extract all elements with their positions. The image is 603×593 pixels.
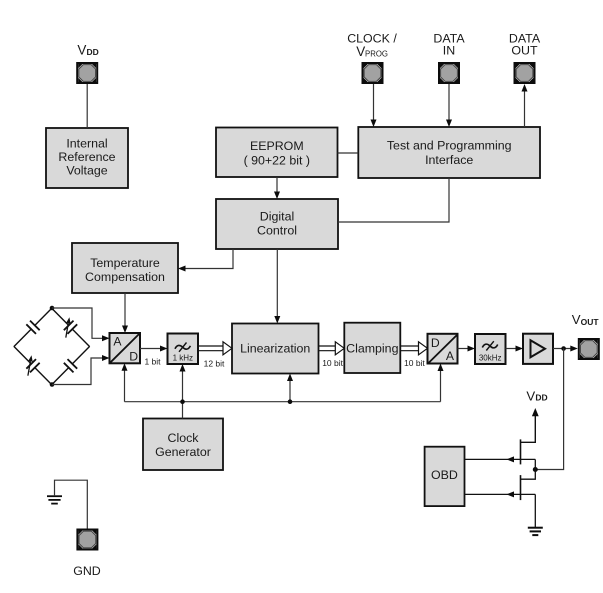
wire CLOCK pad to Test Interface (arrow down) [371, 84, 377, 127]
svg-text:1 bit: 1 bit [144, 356, 161, 366]
block low-pass filter 30 kHz [475, 334, 506, 364]
bus Linearization to Clamping (10 bit) [319, 342, 345, 355]
svg-text:Clamping: Clamping [346, 342, 398, 356]
block output buffer amplifier [523, 334, 553, 364]
svg-text:A: A [446, 349, 455, 363]
svg-text:Control: Control [257, 224, 297, 238]
svg-text:V: V [572, 312, 581, 327]
svg-text:Voltage: Voltage [66, 164, 107, 178]
wire VOUT branch to output node [535, 349, 563, 470]
block Clock Generator [143, 419, 223, 471]
pad VDD (top left) [77, 63, 97, 83]
wire upper transistor drain to VDD (arrow up) [521, 408, 539, 442]
label DATA OUT [509, 32, 541, 58]
svg-text:DD: DD [535, 393, 547, 403]
pad GND (bottom left) [77, 530, 97, 550]
wire clock distribution line [125, 401, 441, 403]
wire 30 kHz filter to buffer (arrow right) [506, 346, 524, 352]
svg-text:Compensation: Compensation [85, 270, 165, 284]
node dot output stage [533, 467, 538, 472]
svg-text:1 kHz: 1 kHz [173, 353, 193, 362]
arrowhead to OBD (upper) [507, 456, 515, 462]
wire Temperature Compensation to A/D (arrow down) [122, 293, 128, 333]
pad VOUT (right) [579, 339, 599, 359]
pad DATA OUT [515, 63, 535, 83]
wire Digital Control to Temperature Compensation (arrow left) [178, 249, 233, 272]
svg-text:A: A [113, 335, 122, 349]
svg-text:DD: DD [87, 47, 99, 57]
wire buffer to VOUT pad (arrow right) [553, 346, 578, 352]
transistor lower (low-side) [465, 470, 536, 528]
node dot clock line at 1 kHz branch [180, 399, 185, 404]
block A/D converter [110, 333, 141, 363]
wire clock to A/D (arrow up) [122, 363, 128, 401]
pad DATA IN [439, 63, 459, 83]
wire Test Interface to Digital Control [338, 178, 449, 222]
block Internal Reference Voltage [46, 128, 128, 188]
svg-text:10 bit: 10 bit [322, 358, 343, 368]
svg-text:Test and Programming: Test and Programming [387, 139, 512, 153]
wire Digital Control to Linearization (arrow down) [274, 249, 280, 324]
node dot VOUT branch [561, 346, 566, 351]
wire Test Interface to DATA OUT pad (arrow up) [522, 84, 528, 127]
wire DATA IN pad to Test Interface (arrow down) [446, 84, 452, 127]
block low-pass filter 1 kHz [168, 334, 199, 365]
svg-text:Interface: Interface [425, 153, 473, 167]
block D/A converter [428, 334, 458, 364]
block Clamping [344, 323, 400, 373]
svg-text:Clock: Clock [168, 431, 200, 445]
svg-text:Generator: Generator [155, 445, 211, 459]
wire bridge top to A/D (arrow right) [52, 308, 110, 341]
svg-text:( 90+22 bit ): ( 90+22 bit ) [244, 154, 310, 168]
variable arrow on bottom-left capacitor [28, 355, 33, 375]
block OBD [425, 447, 465, 506]
svg-text:Temperature: Temperature [90, 256, 160, 270]
wire A/D to 1 kHz filter (arrow right) [140, 346, 168, 352]
variable arrow on top-right capacitor [66, 317, 71, 337]
side top-left with capacitor [9, 303, 57, 351]
side top-right with variable capacitor [47, 303, 95, 351]
svg-text:OUT: OUT [511, 44, 538, 58]
svg-text:IN: IN [443, 44, 455, 58]
wire EEPROM to Test Interface [338, 152, 359, 154]
transistor upper (high-side) [465, 439, 536, 469]
svg-text:10 bit: 10 bit [404, 358, 425, 368]
pad CLOCK/VPROG [363, 63, 383, 83]
svg-text:CLOCK /: CLOCK / [347, 32, 397, 46]
svg-text:Linearization: Linearization [240, 342, 310, 356]
label VOUT [572, 312, 600, 327]
wire EEPROM to Digital Control (arrow down) [274, 177, 280, 199]
svg-text:12 bit: 12 bit [204, 358, 225, 368]
node dot bridge top [50, 306, 55, 311]
svg-text:Internal: Internal [66, 137, 107, 151]
wire clock to Linearization (arrow up) [287, 374, 293, 402]
svg-text:V: V [526, 388, 535, 403]
svg-text:V: V [356, 44, 365, 59]
label DATA IN [433, 32, 465, 58]
svg-text:D: D [431, 336, 440, 350]
node dot clock line at Linearization branch [288, 399, 293, 404]
side bottom-left with variable capacitor [9, 342, 57, 390]
svg-text:OUT: OUT [581, 317, 600, 327]
svg-text:D: D [129, 349, 138, 363]
block Digital Control [216, 199, 338, 249]
wire clock to D/A (arrow up) [438, 364, 444, 402]
svg-text:EEPROM: EEPROM [250, 139, 304, 153]
bus 1 kHz filter to Linearization (12 bit) [198, 342, 232, 355]
svg-text:PROG: PROG [365, 50, 388, 59]
block EEPROM (90+22 bit) [216, 128, 338, 178]
svg-text:Digital: Digital [260, 210, 294, 224]
svg-text:GND: GND [73, 564, 101, 578]
svg-text:30kHz: 30kHz [479, 353, 502, 362]
ground symbol (output stage) [528, 528, 543, 535]
ground symbol (GND pad) [47, 496, 62, 503]
label CLOCK / VPROG [347, 32, 397, 59]
wire bridge bottom to A/D (arrow right) [52, 355, 110, 385]
wire D/A to 30 kHz filter (arrow right) [458, 346, 476, 352]
block Test and Programming Interface [358, 127, 540, 178]
svg-text:V: V [77, 43, 86, 58]
block Linearization [232, 324, 319, 374]
wire VDD pad to Internal Reference Voltage [86, 84, 88, 128]
label VDD (top left) [77, 43, 98, 58]
node dot bridge bottom [50, 382, 55, 387]
svg-text:OBD: OBD [431, 468, 458, 482]
wire clock to 1 kHz filter (arrow up) [180, 364, 186, 402]
arrowhead to OBD (lower) [507, 491, 515, 497]
wire GND pad to ground symbol [55, 480, 88, 528]
block Temperature Compensation [72, 243, 178, 293]
svg-text:Reference: Reference [58, 150, 115, 164]
capacitive sensor bridge [9, 303, 94, 390]
bus Clamping to D/A (10 bit) [400, 342, 427, 355]
side bottom-right with capacitor [47, 342, 95, 390]
wire Clock Generator to clock line [182, 402, 184, 419]
label VDD (output stage) [526, 388, 547, 403]
